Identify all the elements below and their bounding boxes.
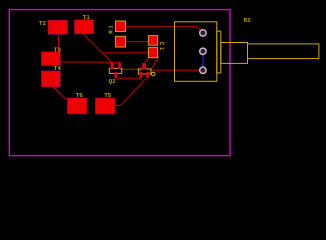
wire Q1 top pad to R2 pad3 <box>151 69 203 71</box>
capacitor C1 <box>148 36 165 58</box>
svg-text:R2: R2 <box>244 17 252 24</box>
R2 pad 3 <box>200 67 206 73</box>
svg-text:R1: R1 <box>108 24 115 34</box>
transistor Q1 <box>138 63 155 77</box>
svg-text:T6: T6 <box>76 92 84 99</box>
pad T2 <box>48 20 68 34</box>
pad T5 <box>95 98 115 114</box>
svg-text:C1: C1 <box>158 42 165 52</box>
wire T3 to Q2 right pad <box>61 61 120 63</box>
wire T5 to Q1 bottom-right pad <box>115 77 147 105</box>
potentiometer R2 body <box>175 22 217 82</box>
potentiometer R2 flange <box>217 31 221 73</box>
svg-text:T5: T5 <box>104 92 112 99</box>
wire bottom layer R2 pad2 to pad3 <box>202 51 204 70</box>
svg-text:Q2: Q2 <box>109 78 117 85</box>
pad T4 <box>41 71 60 87</box>
wire C1 bottom pad to Q1 top pad <box>144 57 148 64</box>
wire Q2 bottom pad to Q1 bottom-left pad <box>115 77 141 79</box>
wire R1 top pad to R2 pad1 <box>126 26 203 33</box>
wire T2 to T3 <box>58 34 60 53</box>
pad T3 <box>41 52 60 66</box>
pad T1 <box>74 20 93 34</box>
R2 pad 1 <box>200 30 206 36</box>
svg-text:T1: T1 <box>83 14 91 21</box>
resistor R1 <box>108 21 126 47</box>
svg-text:T3: T3 <box>54 46 62 53</box>
svg-text:T2: T2 <box>39 20 47 27</box>
pad T6 <box>67 98 87 114</box>
potentiometer R2 shaft <box>248 44 319 59</box>
wire T1 to C1/Q2 net <box>83 34 149 53</box>
wire R1 bottom pad to C1 top pad <box>126 41 149 43</box>
potentiometer R2 bushing <box>221 43 248 64</box>
R2 pad 2 <box>200 48 206 54</box>
svg-text:T4: T4 <box>54 65 62 72</box>
wire branch to Q2 left pad <box>103 53 112 62</box>
wire C1 bottom pad to pad3 horizontal <box>151 57 159 70</box>
wire T4 to T6 <box>53 87 67 100</box>
board outline (Dimension layer) <box>9 10 230 156</box>
transistor Q2 <box>109 62 122 85</box>
wire Q2 right pad to Q1 bottom-left pad <box>120 69 140 72</box>
